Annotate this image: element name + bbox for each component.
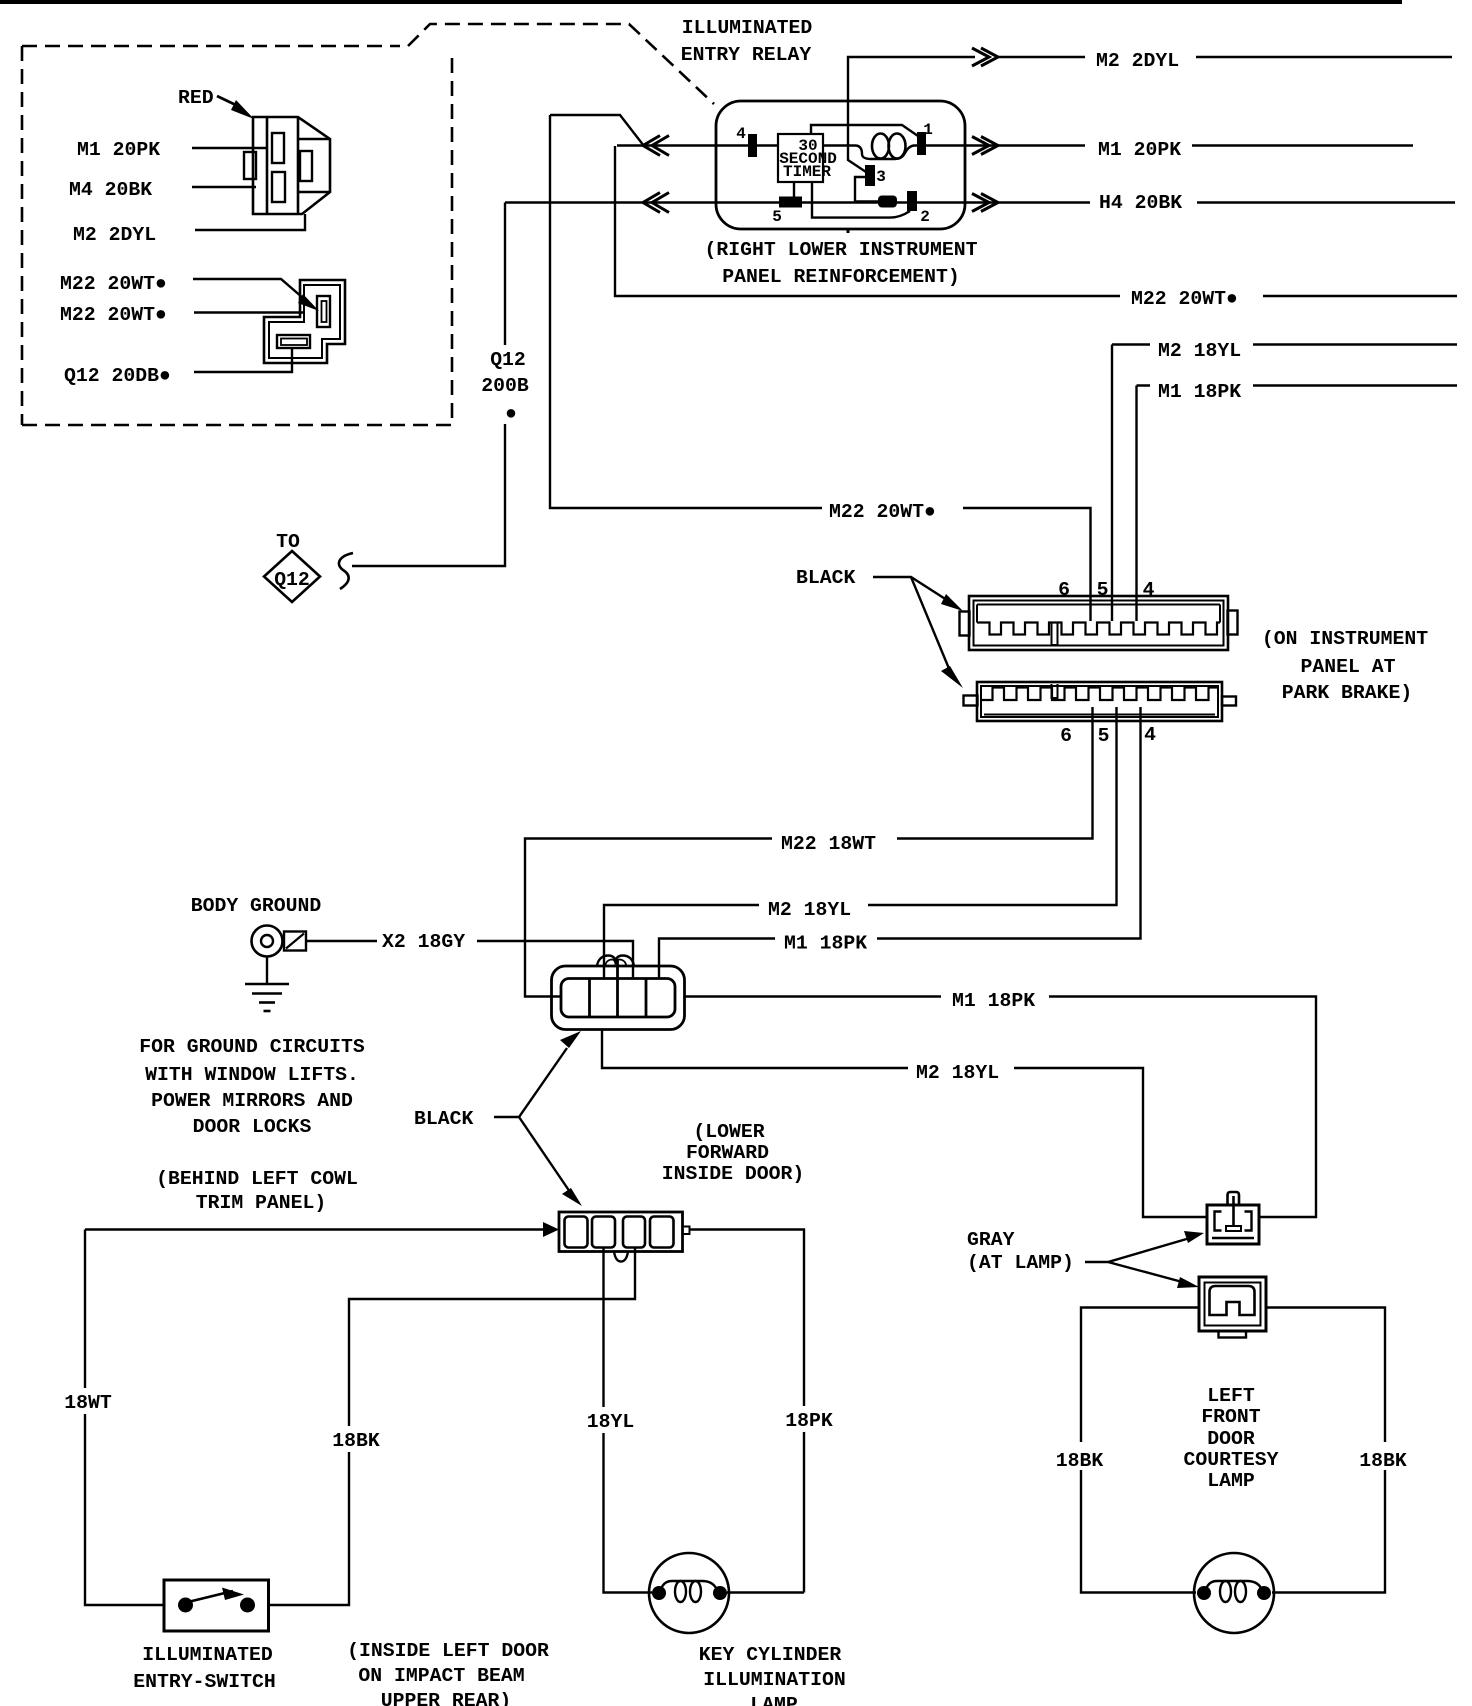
- svg-text:ON IMPACT BEAM: ON IMPACT BEAM: [358, 1665, 524, 1687]
- svg-text:M22 20WT●: M22 20WT●: [60, 273, 167, 295]
- svg-text:ILLUMINATION: ILLUMINATION: [703, 1669, 845, 1691]
- wire 18WT down to switch: [85, 1230, 164, 1606]
- wire M22 20WT* to edge: [1263, 295, 1457, 297]
- svg-text:TO: TO: [276, 531, 300, 553]
- svg-text:M1 20PK: M1 20PK: [1098, 139, 1181, 161]
- svg-text:ILLUMINATED: ILLUMINATED: [682, 17, 813, 39]
- svg-text:M1 18PK: M1 18PK: [1158, 381, 1241, 403]
- svg-text:LAMP: LAMP: [1207, 1470, 1255, 1492]
- svg-text:TIMER: TIMER: [783, 163, 831, 181]
- svg-text:Q12: Q12: [490, 349, 526, 371]
- relay pin 1: [917, 132, 926, 155]
- svg-text:KEY CYLINDER: KEY CYLINDER: [699, 1644, 842, 1666]
- svg-text:BODY GROUND: BODY GROUND: [191, 895, 322, 917]
- relay moving contact: [878, 196, 897, 208]
- wire M2 18YL to lamp connector: [1014, 1068, 1207, 1217]
- svg-text:●: ●: [505, 403, 517, 425]
- svg-text:BLACK: BLACK: [796, 567, 855, 589]
- svg-text:M2 2DYL: M2 2DYL: [73, 224, 156, 246]
- in-arrows lower: [643, 193, 669, 213]
- svg-text:ENTRY-SWITCH: ENTRY-SWITCH: [133, 1671, 275, 1693]
- wire M1 20PK to C1: [192, 147, 267, 149]
- svg-text:H4 20BK: H4 20BK: [1099, 192, 1182, 214]
- svg-text:M2 2DYL: M2 2DYL: [1096, 50, 1179, 72]
- svg-text:LEFT: LEFT: [1207, 1385, 1255, 1407]
- node TO Q12 diamond: [264, 551, 320, 602]
- wire 18PK from C6 right: [690, 1230, 805, 1593]
- relay pin 5 bar: [779, 197, 802, 208]
- wire lamp right to 18PK: [727, 1591, 804, 1593]
- svg-text:2: 2: [920, 208, 930, 226]
- wire pin3 to contact: [855, 177, 878, 202]
- lamp DS1 key cylinder: [649, 1553, 729, 1633]
- relay pin 3: [865, 165, 875, 186]
- svg-text:Q12: Q12: [274, 569, 310, 591]
- svg-text:1: 1: [923, 121, 933, 139]
- svg-text:TRIM PANEL): TRIM PANEL): [196, 1192, 327, 1214]
- wire M2 20YL to C1: [195, 214, 305, 230]
- svg-text:GRAY: GRAY: [967, 1229, 1015, 1251]
- svg-text:PANEL AT: PANEL AT: [1301, 656, 1396, 678]
- wire M1 18PK from pin4: [877, 707, 1141, 939]
- wire pin1 out right: [926, 144, 1085, 146]
- wire courtesy loop left: [1081, 1308, 1199, 1593]
- relay bottom tick: [847, 229, 850, 233]
- svg-text:(AT LAMP): (AT LAMP): [967, 1252, 1074, 1274]
- svg-text:BLACK: BLACK: [414, 1108, 473, 1130]
- svg-text:DOOR: DOOR: [1207, 1428, 1255, 1450]
- svg-text:5: 5: [1098, 725, 1110, 747]
- wire branch diagonal from loop: [550, 115, 644, 146]
- wire M2 20YL right: [999, 56, 1085, 58]
- connector C1 cavity slots: [272, 133, 284, 163]
- wire timer to coil: [823, 144, 856, 146]
- svg-text:(BEHIND LEFT COWL: (BEHIND LEFT COWL: [156, 1168, 358, 1190]
- svg-text:4: 4: [736, 125, 746, 143]
- wire timer top to pin 1: [811, 125, 918, 136]
- connector C6 (4-way door): [559, 1212, 683, 1252]
- wire M1 18PK to lamp connector: [1049, 997, 1316, 1218]
- connector C7 (gray, upper at lamp): [1207, 1205, 1259, 1244]
- wire X2 18GY into door connector: [477, 941, 633, 978]
- wire courtesy loop right: [1266, 1308, 1385, 1593]
- C4 side tabs: [964, 696, 978, 706]
- relay K1 outline: [716, 101, 965, 229]
- svg-text:18WT: 18WT: [64, 1392, 112, 1414]
- svg-text:18BK: 18BK: [1359, 1450, 1407, 1472]
- wire M2 18YL upper: [1112, 345, 1150, 622]
- wire M22 20WT* mid to connector pin6: [963, 508, 1091, 621]
- connector C2 (stair shaped) body: [264, 280, 345, 363]
- svg-text:M22 20WT●: M22 20WT●: [829, 501, 936, 523]
- wire M22 18WT to door connector: [525, 839, 772, 997]
- wire M22 18WT from pin6: [897, 707, 1093, 839]
- svg-text:PARK BRAKE): PARK BRAKE): [1282, 682, 1413, 704]
- wire X2 18GY: [306, 940, 377, 942]
- wire M1 18PK into door connector: [659, 939, 775, 979]
- svg-text:18BK: 18BK: [1056, 1450, 1104, 1472]
- wire M2 18YL to edge: [1253, 343, 1457, 345]
- wire M22 20WT* mid run: [550, 115, 822, 508]
- wire timer to pin5: [793, 182, 795, 199]
- svg-text:(LOWER: (LOWER: [693, 1121, 764, 1143]
- svg-text:M22 20WT●: M22 20WT●: [60, 304, 167, 326]
- wire through relay lower (pin5/pin2 path): [505, 201, 1090, 203]
- splice squiggle: [339, 553, 353, 589]
- wire M2 18YL from pin5: [868, 707, 1117, 905]
- wire M22 20WT* upper run: [615, 146, 1120, 296]
- leader BLACK to connectors: [873, 577, 950, 602]
- svg-text:Q12 20DB●: Q12 20DB●: [64, 365, 171, 387]
- lamp DS2 courtesy: [1194, 1553, 1274, 1633]
- wire 18WT with arrow into C6: [85, 1228, 545, 1230]
- connector C8 (gray, lower at lamp): [1199, 1277, 1266, 1331]
- svg-text:6: 6: [1060, 725, 1072, 747]
- ground G1 symbol: [252, 926, 283, 957]
- C4 middle key slot: [1052, 684, 1058, 698]
- svg-text:(INSIDE LEFT DOOR: (INSIDE LEFT DOOR: [347, 1640, 549, 1662]
- wire 18YL from C6 down to lamp: [604, 1248, 653, 1593]
- C3 upper end caps: [960, 612, 970, 636]
- svg-text:COURTESY: COURTESY: [1184, 1449, 1279, 1471]
- wire Q12 20DB riser: [352, 203, 505, 567]
- connector C3 upper (instrument panel): [969, 596, 1228, 650]
- svg-text:FOR GROUND CIRCUITS: FOR GROUND CIRCUITS: [139, 1036, 365, 1058]
- svg-text:18PK: 18PK: [785, 1410, 833, 1432]
- svg-text:(ON INSTRUMENT: (ON INSTRUMENT: [1262, 628, 1428, 650]
- connector C4 lower (instrument panel): [977, 682, 1222, 721]
- svg-text:WITH WINDOW LIFTS.: WITH WINDOW LIFTS.: [145, 1064, 359, 1086]
- svg-text:M2 18YL: M2 18YL: [1158, 340, 1241, 362]
- svg-text:PANEL REINFORCEMENT): PANEL REINFORCEMENT): [722, 266, 959, 288]
- top border bar: [0, 0, 1402, 4]
- connector C2 vertical slot: [317, 296, 330, 327]
- wire Q12 20DB to C2 slot: [194, 348, 292, 372]
- relay pin 4: [748, 134, 757, 157]
- svg-text:INSIDE DOOR): INSIDE DOOR): [662, 1163, 804, 1185]
- svg-text:FORWARD: FORWARD: [686, 1142, 769, 1164]
- wire M1 18PK upper: [1137, 386, 1151, 622]
- svg-text:(RIGHT LOWER INSTRUMENT: (RIGHT LOWER INSTRUMENT: [704, 239, 977, 261]
- timer U1 box: [778, 134, 823, 182]
- svg-text:M2 18YL: M2 18YL: [916, 1062, 999, 1084]
- svg-text:4: 4: [1143, 579, 1155, 601]
- svg-text:M22 18WT: M22 18WT: [781, 833, 876, 855]
- svg-text:M2 18YL: M2 18YL: [768, 899, 851, 921]
- leader GRAY to connectors: [1085, 1238, 1190, 1262]
- leader arrow from RED to connector: [217, 96, 240, 107]
- wire pin2 to timer bottom: [812, 182, 910, 218]
- svg-text:FRONT: FRONT: [1201, 1406, 1260, 1428]
- svg-text:4: 4: [1144, 724, 1156, 746]
- wire M2 18YL into door connector: [604, 905, 759, 978]
- wire H4 20BK to edge: [1197, 201, 1455, 203]
- svg-text:M1 18PK: M1 18PK: [784, 933, 867, 955]
- wire M1 18PK out of C5: [685, 995, 942, 997]
- wire M2 20YL to edge: [1196, 56, 1452, 58]
- wire M1 18PK to edge: [1253, 384, 1457, 386]
- wire M2 18YL out of C5 bottom: [602, 1030, 908, 1069]
- svg-text:M22 20WT●: M22 20WT●: [1131, 288, 1238, 310]
- svg-text:18BK: 18BK: [332, 1430, 380, 1452]
- connector C5 (3-way in door): [552, 966, 685, 1030]
- wire M1 20PK to edge: [1192, 144, 1413, 146]
- wire M22 20WT* second into C2: [194, 311, 303, 313]
- svg-text:ENTRY RELAY: ENTRY RELAY: [681, 44, 812, 66]
- relay pin 2: [907, 191, 917, 211]
- out-arrows H4 20BK: [972, 194, 998, 212]
- dashed leader to relay: [408, 24, 714, 104]
- wire into relay pin 4: [617, 144, 778, 146]
- out-arrows M2 20YL: [972, 48, 998, 66]
- switch S1 box: [164, 1580, 269, 1631]
- dashed harness box: [22, 46, 452, 425]
- svg-text:ILLUMINATED: ILLUMINATED: [142, 1644, 273, 1666]
- svg-text:6: 6: [1058, 579, 1070, 601]
- svg-text:M1 20PK: M1 20PK: [77, 139, 160, 161]
- wire M4 20BK to C1: [192, 186, 256, 188]
- svg-text:M1 18PK: M1 18PK: [952, 990, 1035, 1012]
- leader BLACK to connectors: [494, 1048, 567, 1117]
- C3 upper middle key slot: [1052, 623, 1058, 645]
- svg-text:200B: 200B: [481, 375, 529, 397]
- svg-text:UPPER REAR): UPPER REAR): [381, 1690, 512, 1706]
- svg-text:3: 3: [876, 168, 886, 186]
- svg-text:M4 20BK: M4 20BK: [69, 179, 152, 201]
- wire M22 20WT* into C2 slot with arrow: [193, 279, 310, 304]
- wire 18BK from C6 to switch: [269, 1248, 636, 1605]
- in-arrows at pin4 wire: [643, 136, 669, 156]
- svg-text:X2 18GY: X2 18GY: [382, 931, 465, 953]
- wire M2 20YL from relay pin3 riser to top: [848, 57, 975, 172]
- connector C1 (red 6-way) body: [253, 117, 330, 214]
- relay coil L1: [856, 146, 917, 160]
- svg-text:RED: RED: [178, 87, 214, 109]
- svg-text:LAMP: LAMP: [750, 1694, 798, 1706]
- svg-text:DOOR LOCKS: DOOR LOCKS: [193, 1116, 312, 1138]
- svg-text:5: 5: [1097, 579, 1109, 601]
- svg-text:5: 5: [772, 208, 782, 226]
- out-arrows M1 20PK: [972, 137, 998, 155]
- svg-text:POWER MIRRORS AND: POWER MIRRORS AND: [151, 1090, 353, 1112]
- svg-text:18YL: 18YL: [587, 1411, 634, 1433]
- connector C2 horizontal slot: [277, 335, 310, 348]
